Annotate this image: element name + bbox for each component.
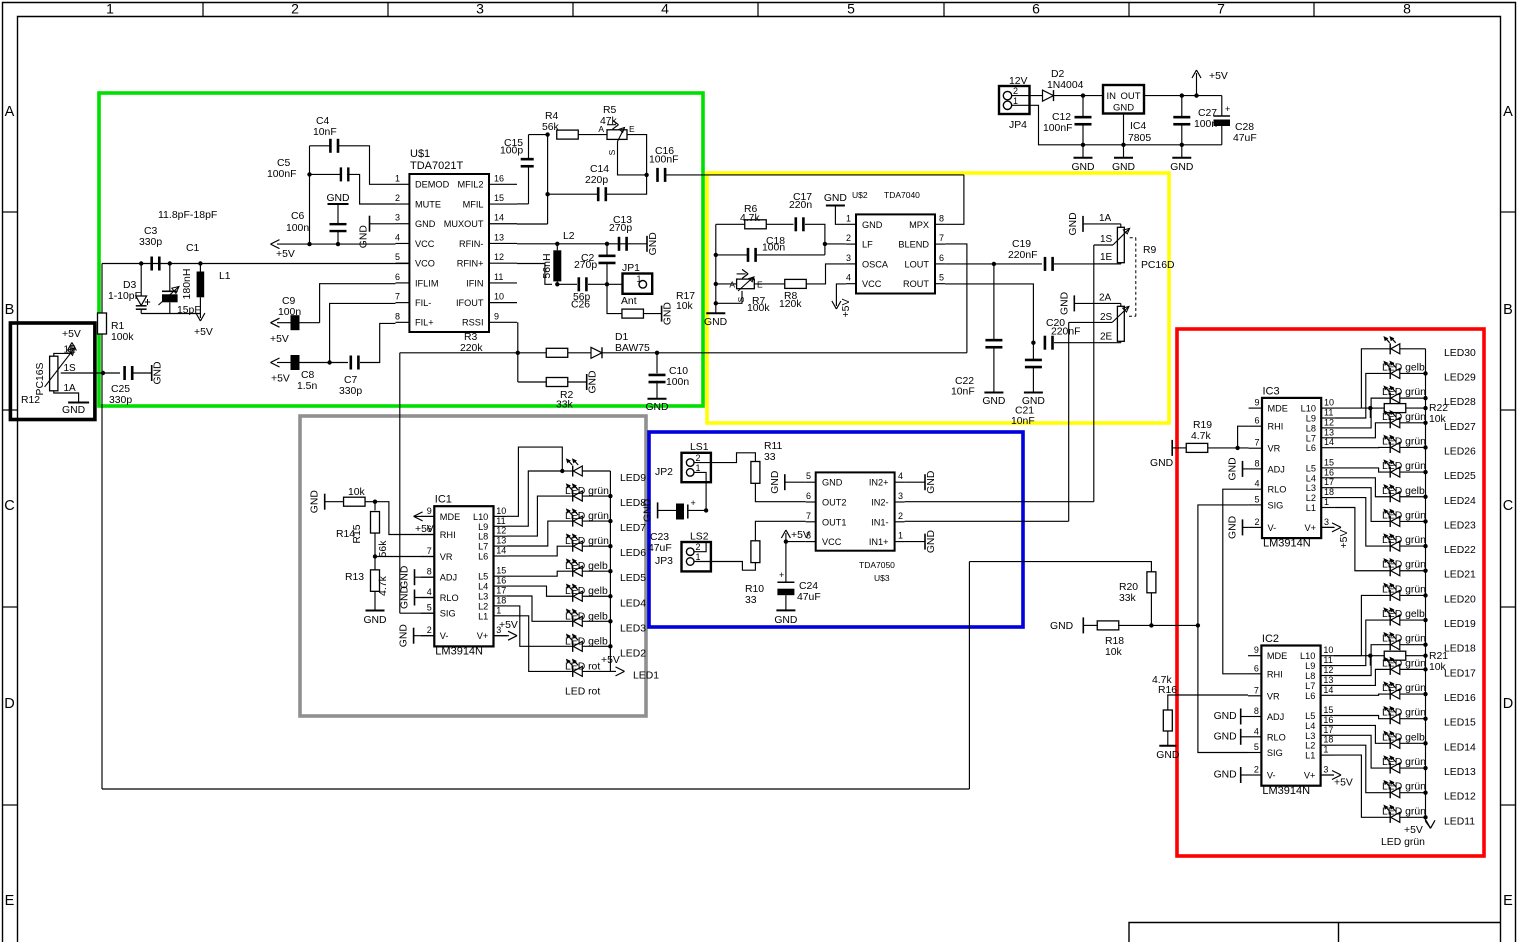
wire C8 line bbox=[300, 362, 349, 364]
svg-text:E: E bbox=[629, 124, 635, 134]
+5V supply arrow U$2 bbox=[832, 301, 837, 309]
node C8 junction bbox=[327, 360, 331, 364]
wire IC1 L9 to LED8 bbox=[507, 496, 573, 536]
pin 8 IC3 ADJ bbox=[1249, 468, 1262, 470]
svg-text:LED grün: LED grün bbox=[1382, 584, 1426, 595]
svg-text:RFIN+: RFIN+ bbox=[457, 259, 484, 269]
svg-text:4.7k: 4.7k bbox=[377, 575, 389, 596]
svg-text:L8: L8 bbox=[1306, 423, 1316, 433]
ground IC2 V- bbox=[1241, 774, 1248, 776]
node R4 C15 bbox=[545, 132, 549, 136]
svg-text:+5V: +5V bbox=[601, 655, 620, 666]
capacitor C22 bbox=[993, 264, 995, 339]
svg-text:+5V: +5V bbox=[1209, 71, 1228, 82]
svg-text:L7: L7 bbox=[478, 542, 488, 552]
svg-text:11.8pF-18pF: 11.8pF-18pF bbox=[158, 209, 217, 221]
svg-text:LED20: LED20 bbox=[1444, 594, 1476, 605]
svg-text:33k: 33k bbox=[1119, 593, 1137, 604]
svg-text:5: 5 bbox=[427, 603, 432, 613]
wire C18 line bbox=[716, 254, 749, 256]
LED LED4 bbox=[572, 591, 574, 602]
svg-text:C5: C5 bbox=[277, 158, 291, 169]
node D3 top bbox=[139, 261, 143, 265]
svg-text:LED gelb: LED gelb bbox=[565, 636, 608, 647]
wire IC3 pin to LED22 bbox=[1335, 498, 1391, 546]
svg-text:LED16: LED16 bbox=[1444, 693, 1476, 704]
wire pin5 ROUT bbox=[945, 284, 1033, 343]
node anode bus red bbox=[1423, 445, 1427, 449]
svg-text:RLO: RLO bbox=[1268, 485, 1287, 495]
wire R12 pin 1E to +5V bbox=[54, 345, 72, 356]
gray section box level meter IC1 bbox=[300, 416, 646, 716]
wire IC3 pin to LED21 bbox=[1335, 508, 1391, 571]
pin 12 IC2 L8 bbox=[1321, 675, 1334, 677]
node LF bbox=[823, 242, 827, 246]
pin 7 IC3 VR bbox=[1249, 447, 1262, 449]
svg-text:9: 9 bbox=[494, 311, 499, 321]
+5V supply arrow power bbox=[1196, 73, 1198, 96]
wire IC3 pin to LED23 bbox=[1335, 488, 1391, 522]
svg-text:VCC: VCC bbox=[415, 239, 435, 249]
wire LED7 anode bbox=[582, 520, 610, 522]
wire IC2 pin to LED15 bbox=[1334, 716, 1390, 719]
svg-text:2: 2 bbox=[1254, 765, 1259, 775]
pin 8 U$1 FIL+ bbox=[396, 321, 410, 323]
node anode bus red bbox=[1423, 741, 1427, 745]
wire IC2 pin to LED19 bbox=[1334, 620, 1390, 666]
pin 10 IC3 L10 bbox=[1321, 407, 1334, 409]
wire IC2 pin to LED17 bbox=[1334, 669, 1390, 685]
svg-text:S: S bbox=[607, 149, 617, 155]
wire R12 pin 1A to ground bbox=[54, 391, 79, 403]
pin 13 IC2 L7 bbox=[1321, 684, 1334, 686]
node C27 top bbox=[1180, 93, 1184, 97]
svg-text:15: 15 bbox=[494, 193, 504, 203]
LED LED9 bbox=[572, 466, 574, 477]
svg-text:LM3914N: LM3914N bbox=[1263, 537, 1311, 549]
svg-text:LED grün: LED grün bbox=[1382, 436, 1426, 447]
black section box tuning potentiometer bbox=[10, 323, 95, 420]
pin 8 U$2 MPX bbox=[935, 223, 945, 225]
pin 10 U$1 IFOUT bbox=[489, 302, 517, 304]
svg-text:V+: V+ bbox=[1304, 771, 1316, 781]
svg-text:L5: L5 bbox=[1305, 711, 1315, 721]
svg-text:BLEND: BLEND bbox=[898, 240, 929, 250]
svg-text:47uF: 47uF bbox=[648, 543, 672, 554]
ground C25 bbox=[151, 365, 153, 381]
+5V supply arrow U$3 bbox=[785, 533, 787, 542]
resistor R11 bbox=[751, 462, 760, 484]
svg-text:+5V: +5V bbox=[1404, 825, 1423, 836]
svg-text:LED rot: LED rot bbox=[565, 686, 600, 697]
svg-text:LED grün: LED grün bbox=[1382, 461, 1426, 472]
svg-text:270p: 270p bbox=[574, 260, 597, 271]
node anode bus red bbox=[1423, 790, 1427, 794]
svg-text:GND: GND bbox=[926, 530, 937, 553]
wire node to RHI bbox=[375, 502, 434, 535]
svg-text:FIL-: FIL- bbox=[415, 298, 431, 308]
wire C17 to LF node bbox=[805, 224, 825, 255]
ground U$3 pin5 bbox=[784, 474, 786, 490]
capacitor C28 polarized bbox=[1221, 96, 1223, 116]
wire C26 to C2 node bbox=[588, 283, 623, 285]
pin 18 IC1 L2 bbox=[494, 605, 507, 607]
wire R5 E to C16 node bbox=[627, 135, 647, 175]
pin 8 IC1 ADJ bbox=[421, 576, 434, 578]
node anode bus bbox=[608, 619, 612, 623]
svg-text:L2: L2 bbox=[1305, 741, 1315, 751]
pin 9 IC3 MDE bbox=[1249, 407, 1262, 409]
wire LOUT to C19 bbox=[994, 263, 1042, 265]
LED LED12 bbox=[1389, 787, 1391, 798]
svg-text:5: 5 bbox=[395, 252, 400, 262]
capacitor C7 bbox=[350, 356, 353, 370]
svg-text:LM3914N: LM3914N bbox=[1262, 785, 1310, 797]
green section box FM receiver bbox=[99, 93, 703, 406]
ground R16 bbox=[1159, 745, 1176, 747]
svg-text:L1: L1 bbox=[1306, 503, 1316, 513]
node anode bus red bbox=[1423, 519, 1427, 523]
svg-text:D1: D1 bbox=[615, 332, 629, 343]
svg-text:2: 2 bbox=[1013, 86, 1018, 96]
pin 15 IC1 L5 bbox=[494, 575, 507, 577]
svg-text:JP3: JP3 bbox=[655, 556, 673, 567]
wire RSSI detector line bbox=[400, 352, 546, 354]
ground IC2 ADJ bbox=[1241, 716, 1248, 718]
red section box frequency display bbox=[1177, 329, 1484, 856]
wire C15 bottom to pin15 MFIL bbox=[517, 203, 529, 205]
svg-text:GND: GND bbox=[153, 361, 164, 384]
ground U$3 IN1+ bbox=[905, 541, 925, 543]
svg-text:330p: 330p bbox=[109, 395, 132, 406]
svg-text:B: B bbox=[1503, 302, 1513, 318]
svg-text:LS1: LS1 bbox=[690, 442, 709, 453]
wire IC3 L10 line bbox=[1335, 407, 1371, 409]
wire pin13 RFIN- bbox=[517, 243, 647, 245]
wire LED14 anode bbox=[1400, 742, 1426, 744]
blue section box audio amplifier bbox=[649, 432, 1023, 627]
svg-text:C3: C3 bbox=[144, 226, 158, 237]
node anode bus bbox=[608, 644, 612, 648]
node R21 left bbox=[1368, 654, 1372, 658]
wire 1S wiper bbox=[1094, 244, 1113, 246]
pin 14 IC3 L6 bbox=[1321, 447, 1334, 449]
svg-text:14: 14 bbox=[1323, 685, 1333, 695]
svg-text:MDE: MDE bbox=[1268, 404, 1288, 414]
wire C19 to volume pot bbox=[1054, 263, 1121, 265]
svg-text:1-10pF: 1-10pF bbox=[108, 291, 141, 302]
svg-text:+5V: +5V bbox=[499, 620, 518, 631]
potentiometer R9 PC16D section 2 bbox=[1117, 306, 1124, 341]
node R7 left bbox=[714, 282, 718, 286]
node +5V arrow bbox=[1194, 93, 1198, 97]
capacitor C5 bbox=[340, 167, 342, 181]
pin 5 U$2 ROUT bbox=[935, 283, 945, 285]
wire left bus R6 R7 bbox=[715, 224, 717, 313]
wire LED11 anode bbox=[1400, 816, 1426, 818]
svg-text:LED grün: LED grün bbox=[1382, 510, 1426, 521]
svg-text:1: 1 bbox=[637, 274, 642, 284]
svg-text:GND: GND bbox=[1214, 711, 1237, 722]
node C1 top bbox=[168, 261, 172, 265]
svg-text:16: 16 bbox=[496, 576, 506, 586]
svg-text:8: 8 bbox=[1254, 706, 1259, 716]
wire tuning line from R12 1S to C25 bbox=[96, 372, 120, 374]
svg-text:RFIN-: RFIN- bbox=[459, 239, 484, 249]
svg-text:VR: VR bbox=[1268, 444, 1281, 454]
wire LED24 anode bbox=[1400, 496, 1426, 498]
LED LED3 bbox=[572, 616, 574, 627]
svg-text:IFIN: IFIN bbox=[466, 278, 483, 288]
svg-text:V+: V+ bbox=[1305, 523, 1317, 533]
svg-text:IN2-: IN2- bbox=[871, 498, 888, 508]
svg-text:GND: GND bbox=[363, 615, 386, 626]
svg-text:GND: GND bbox=[1170, 162, 1193, 173]
LED LED6 bbox=[572, 541, 574, 552]
svg-text:LED gelb: LED gelb bbox=[565, 611, 608, 622]
node anode bus red bbox=[1423, 495, 1427, 499]
ground power 2 bbox=[1123, 145, 1125, 158]
wire tuning rail bottom bbox=[102, 788, 969, 790]
svg-text:OUT1: OUT1 bbox=[822, 517, 847, 527]
pin 6 U$3 OUT2 bbox=[806, 501, 816, 503]
svg-text:L2: L2 bbox=[563, 231, 575, 242]
wire IC3 pin to LED26 bbox=[1335, 446, 1391, 448]
ground power 1 bbox=[1082, 145, 1084, 158]
pin 15 IC2 L5 bbox=[1321, 715, 1334, 717]
wire LED27 anode bbox=[1400, 422, 1426, 424]
pin 7 IC1 VR bbox=[421, 556, 434, 558]
capacitor C21 bbox=[1032, 343, 1034, 359]
svg-text:DEMOD: DEMOD bbox=[415, 180, 450, 190]
connector JP4 12V bbox=[999, 86, 1030, 114]
ground R13 bbox=[366, 610, 385, 612]
svg-text:1A: 1A bbox=[1099, 213, 1112, 224]
IC IC1 LM3914N bbox=[434, 506, 493, 646]
node wiper left bbox=[714, 301, 718, 305]
svg-text:+5V: +5V bbox=[415, 524, 434, 535]
node L1 top bbox=[198, 261, 202, 265]
svg-text:16: 16 bbox=[494, 173, 504, 183]
pin 13 IC1 L7 bbox=[494, 545, 507, 547]
svg-text:GND: GND bbox=[770, 471, 781, 494]
wire R10 to OUT1 bbox=[755, 521, 805, 541]
svg-text:120k: 120k bbox=[779, 299, 802, 310]
svg-text:10: 10 bbox=[496, 506, 506, 516]
IC IC2 LM3914N bbox=[1261, 646, 1320, 786]
svg-text:A: A bbox=[729, 280, 735, 290]
ground U$3 IN2+ bbox=[905, 481, 925, 483]
svg-text:C6: C6 bbox=[291, 211, 305, 222]
svg-text:12: 12 bbox=[494, 252, 504, 262]
svg-text:1: 1 bbox=[696, 463, 701, 473]
node C14 left bbox=[545, 192, 549, 196]
svg-text:4: 4 bbox=[846, 273, 851, 283]
resistor R22 bbox=[1370, 407, 1384, 409]
capacitor C3 bbox=[150, 257, 153, 271]
svg-text:LED6: LED6 bbox=[620, 548, 646, 559]
pin 17 IC1 L3 bbox=[494, 595, 507, 597]
svg-text:+: + bbox=[779, 570, 784, 580]
svg-text:LED11: LED11 bbox=[1444, 816, 1475, 827]
svg-text:1S: 1S bbox=[64, 363, 77, 374]
svg-text:E: E bbox=[757, 280, 763, 290]
svg-text:LED gelb: LED gelb bbox=[1382, 609, 1425, 620]
svg-text:IN: IN bbox=[1107, 91, 1117, 102]
wire LED12 anode bbox=[1400, 792, 1426, 794]
svg-text:D3: D3 bbox=[123, 280, 137, 291]
trimmer resistor R7 bbox=[716, 283, 737, 285]
svg-text:IC2: IC2 bbox=[1262, 633, 1279, 645]
svg-text:6: 6 bbox=[1254, 416, 1259, 426]
svg-text:100n: 100n bbox=[762, 243, 785, 254]
IC U$3 TDA7050 bbox=[816, 472, 895, 550]
svg-text:15: 15 bbox=[496, 566, 506, 576]
svg-text:LED gelb: LED gelb bbox=[1382, 362, 1425, 373]
svg-text:L3: L3 bbox=[1305, 731, 1315, 741]
LED LED30 bbox=[1389, 343, 1391, 354]
svg-text:6: 6 bbox=[939, 253, 944, 263]
capacitor C26 bbox=[578, 277, 581, 291]
pin 9 IC1 MDE bbox=[421, 515, 434, 517]
wire IC3 pin to LED25 bbox=[1335, 468, 1391, 472]
svg-text:10k: 10k bbox=[348, 487, 366, 498]
svg-text:V+: V+ bbox=[477, 631, 489, 641]
node anode bus bbox=[608, 519, 612, 523]
ground IC2 V- tick bbox=[1240, 767, 1242, 783]
svg-text:33: 33 bbox=[745, 595, 757, 606]
wire C9 line bbox=[300, 322, 320, 324]
wire C4 left to C5 node bbox=[310, 145, 332, 147]
wire IC2 pin to LED12 bbox=[1334, 745, 1390, 792]
svg-text:LED7: LED7 bbox=[620, 523, 646, 534]
pin 16 IC1 L4 bbox=[494, 585, 507, 587]
wire LED30 anode bbox=[1400, 348, 1426, 350]
ground R2 bbox=[586, 374, 588, 390]
wire R6 C17 line bbox=[716, 223, 745, 225]
svg-text:MUXOUT: MUXOUT bbox=[444, 219, 484, 229]
svg-text:7: 7 bbox=[1217, 1, 1225, 17]
capacitor C17 bbox=[795, 217, 798, 231]
svg-text:GND: GND bbox=[824, 193, 847, 204]
svg-text:L4: L4 bbox=[478, 582, 488, 592]
svg-text:R15: R15 bbox=[351, 524, 363, 543]
svg-text:L6: L6 bbox=[478, 552, 488, 562]
trimmer resistor R5 bbox=[607, 130, 627, 140]
ground C10 bbox=[648, 398, 667, 400]
svg-text:LED grün: LED grün bbox=[1382, 634, 1426, 645]
svg-text:12V: 12V bbox=[1009, 76, 1028, 87]
capacitor C27 bbox=[1181, 96, 1183, 117]
svg-text:18: 18 bbox=[1323, 735, 1333, 745]
svg-text:IN1-: IN1- bbox=[871, 517, 888, 527]
node anode bus bbox=[608, 569, 612, 573]
svg-text:1: 1 bbox=[496, 605, 501, 615]
svg-text:2: 2 bbox=[291, 1, 299, 17]
svg-text:C28: C28 bbox=[1235, 122, 1254, 133]
resistor R14 bbox=[325, 501, 344, 503]
pin 16 IC2 L4 bbox=[1321, 724, 1334, 726]
svg-text:R12: R12 bbox=[21, 395, 40, 406]
svg-text:LED23: LED23 bbox=[1444, 520, 1476, 531]
svg-text:LED grün: LED grün bbox=[1382, 535, 1426, 546]
svg-text:330p: 330p bbox=[339, 386, 362, 397]
LED LED25 bbox=[1389, 467, 1391, 478]
svg-text:9: 9 bbox=[1254, 645, 1259, 655]
svg-text:15: 15 bbox=[1323, 705, 1333, 715]
pin 12 IC3 L8 bbox=[1321, 427, 1334, 429]
svg-text:R11: R11 bbox=[764, 441, 783, 452]
svg-text:LED24: LED24 bbox=[1444, 496, 1476, 507]
svg-text:+: + bbox=[1225, 104, 1230, 114]
wire C7 to pin8 FIL+ bbox=[360, 323, 396, 362]
svg-text:2: 2 bbox=[898, 511, 903, 521]
svg-text:LED grün: LED grün bbox=[1382, 782, 1426, 793]
svg-text:LED grün: LED grün bbox=[1382, 412, 1426, 423]
svg-text:LED5: LED5 bbox=[620, 573, 646, 584]
svg-text:RLO: RLO bbox=[440, 593, 459, 603]
svg-text:RHI: RHI bbox=[440, 530, 456, 540]
pin 7 U$3 OUT1 bbox=[806, 521, 816, 523]
wire IC4 GND down bbox=[1123, 114, 1125, 145]
ground IC1 RLO bbox=[414, 590, 416, 606]
svg-text:GND: GND bbox=[982, 396, 1005, 407]
svg-text:LED gelb: LED gelb bbox=[1382, 486, 1425, 497]
svg-text:C21: C21 bbox=[1015, 406, 1034, 417]
ground IC1 ADJ bbox=[415, 576, 435, 578]
pin 5 U$3 GND bbox=[806, 481, 816, 483]
svg-text:LED grün: LED grün bbox=[1381, 837, 1425, 848]
svg-text:4.7k: 4.7k bbox=[1191, 431, 1211, 442]
ground R12 bbox=[68, 402, 89, 404]
wire LED13 anode bbox=[1400, 767, 1426, 769]
svg-text:GND: GND bbox=[774, 615, 797, 626]
svg-text:GND: GND bbox=[1214, 770, 1237, 781]
wire pin12 RFIN+ down bbox=[517, 264, 552, 285]
wire audio input from C16 into decoder bbox=[945, 175, 964, 224]
node tuning junction bbox=[101, 371, 105, 375]
wire IC3 pin to LED27 bbox=[1335, 423, 1391, 438]
svg-text:4: 4 bbox=[427, 587, 432, 597]
svg-text:C24: C24 bbox=[799, 581, 818, 592]
resistor R1 bbox=[98, 313, 107, 334]
pin 11 IC3 L9 bbox=[1321, 417, 1334, 419]
varicap diode D3 bbox=[140, 264, 142, 297]
svg-text:L7: L7 bbox=[1305, 681, 1315, 691]
svg-text:2: 2 bbox=[696, 453, 701, 463]
svg-text:LED9: LED9 bbox=[620, 473, 646, 484]
wire pin4 VCC to +5V bbox=[836, 284, 846, 306]
pin 5 IC3 SIG bbox=[1249, 504, 1262, 506]
wire pin5 U$3 to ground bbox=[785, 481, 806, 483]
svg-text:GND: GND bbox=[862, 220, 883, 230]
resistor R6 bbox=[745, 220, 767, 229]
LED LED26 bbox=[1389, 442, 1391, 453]
wire IC2 pin to LED14 bbox=[1334, 725, 1390, 743]
connector LS2 speaker bbox=[682, 542, 711, 571]
ground pin3 U$1 bbox=[369, 216, 371, 232]
node anode bus red bbox=[1423, 717, 1427, 721]
svg-text:R19: R19 bbox=[1193, 420, 1212, 431]
svg-text:IC4: IC4 bbox=[1130, 121, 1146, 132]
svg-text:7805: 7805 bbox=[1128, 133, 1151, 144]
svg-text:180nH: 180nH bbox=[181, 269, 193, 300]
pin 8 U$3 VCC bbox=[806, 541, 816, 543]
svg-text:IN1+: IN1+ bbox=[869, 537, 889, 547]
IC IC4 7805 voltage regulator bbox=[1103, 85, 1144, 114]
svg-text:10: 10 bbox=[494, 292, 504, 302]
svg-text:VCC: VCC bbox=[862, 279, 882, 289]
